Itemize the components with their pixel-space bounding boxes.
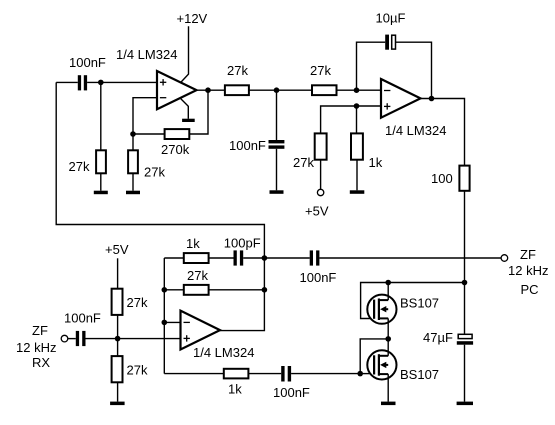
- svg-text:BS107: BS107: [400, 296, 439, 311]
- wire: R8 down to 47uF top plate (crosses 12kHz line without junction): [464, 191, 466, 334]
- node: U2 - input junction (10uF feedback): [354, 87, 360, 93]
- resistor R6 27k (U2 + input to +5V): [315, 133, 327, 159]
- svg-text:+5V: +5V: [305, 204, 329, 219]
- wire: Q2 gate lead: [360, 373, 374, 375]
- wire: junction down to resistor R3: [132, 134, 134, 150]
- wire: C4 to ground: [464, 345, 466, 402]
- resistor R10 27k (U3 feedback): [184, 285, 209, 295]
- svg-text:27k: 27k: [187, 268, 208, 283]
- node: Q1 drain/gate junction: [385, 280, 391, 286]
- wire: R1 to ground: [100, 173, 102, 190]
- wire: C2 to ground: [276, 149, 278, 191]
- wire: junction to 270k resistor: [133, 133, 165, 135]
- svg-text:270k: 270k: [161, 142, 190, 157]
- wire: R9 to C5: [209, 257, 234, 259]
- resistor R12 27k (bias divider lower): [112, 356, 123, 382]
- resistor R2 270k (U1 feedback): [165, 129, 190, 139]
- wire: U3 - input: [164, 321, 180, 323]
- wire: C5 to output node and onward to C7: [243, 257, 310, 259]
- node: U1 output junction: [205, 87, 211, 93]
- node: junction at C1 output: [98, 80, 104, 86]
- node: junction on output rail: [262, 287, 268, 293]
- svg-text:1k: 1k: [369, 155, 383, 170]
- svg-text:27k: 27k: [144, 165, 165, 180]
- terminal: ZF 12 kHz RX input (open circle): [61, 335, 68, 342]
- wire: U1 - input to feedback node: [133, 98, 157, 134]
- resistor R3 27k (U1 - input to ground): [128, 150, 138, 173]
- capacitor C5 100pF (U3 feedback): [234, 250, 244, 265]
- wire: U2 output to 100 resistor: [421, 99, 465, 166]
- wire: 270k to U1 output: [189, 90, 208, 134]
- wire: C8 to Q2 gate junction: [291, 373, 360, 375]
- svg-text:12 kHz: 12 kHz: [508, 263, 548, 278]
- svg-text:100nF: 100nF: [69, 55, 106, 70]
- wire: lower feedback vertical rail (U3 - node): [163, 258, 165, 374]
- wire: R6 to +5V terminal: [320, 160, 322, 190]
- wire: 27k feedback branch: [164, 289, 184, 291]
- node: junction at C2 top: [274, 87, 280, 93]
- ground (below R7): [350, 190, 365, 194]
- transistor Q1 BS107 (upper, diode-connected): [367, 283, 396, 339]
- svg-text:1/4 LM324: 1/4 LM324: [385, 123, 446, 138]
- svg-text:1k: 1k: [186, 236, 200, 251]
- ground (below R3): [126, 191, 140, 195]
- op-amp U1 1/4 LM324 (first stage): [157, 71, 197, 109]
- node: U2 output junction: [429, 96, 435, 102]
- svg-text:27k: 27k: [69, 159, 90, 174]
- wire: +12V supply pin of U1: [181, 26, 189, 82]
- pin: U2 - symbol: [384, 90, 390, 92]
- wire: C7 to ZF PC terminal (crosses 100-resistor rail without junction): [319, 257, 501, 259]
- wire: Q1 gate wrap: [361, 283, 389, 319]
- svg-text:100pF: 100pF: [224, 235, 261, 250]
- resistor R11 27k (bias divider upper): [112, 289, 123, 315]
- resistor R5 27k (into U2 - input): [312, 85, 337, 95]
- wire: U2 + input line: [321, 106, 381, 133]
- svg-text:27k: 27k: [293, 155, 314, 170]
- wire: junction down to C2: [276, 90, 278, 140]
- wire: U1 ground pin: [181, 99, 189, 119]
- ground (below Q2 source): [381, 402, 396, 406]
- op-amp U3 1/4 LM324 (RX amplifier): [181, 311, 221, 350]
- wire: C1 to op-amp U1 + input: [87, 81, 157, 83]
- wire: R12 to ground: [117, 382, 119, 401]
- svg-text:+5V: +5V: [105, 242, 129, 257]
- ground (U1 power pin): [182, 119, 195, 122]
- wire: R13 to C8: [248, 373, 281, 375]
- svg-text:1/4 LM324: 1/4 LM324: [193, 345, 254, 360]
- pin: U3 - symbol: [184, 321, 190, 323]
- wire: 1k/100pF feedback branch: [164, 257, 184, 259]
- node: - input junction: [162, 320, 168, 326]
- node: U1 - input junction: [130, 131, 136, 137]
- wire: R4 to R5: [249, 89, 312, 91]
- wire: junction down to resistor R1: [100, 82, 102, 150]
- wire: RX terminal to C6: [68, 338, 76, 340]
- pin: U1 - symbol: [160, 97, 166, 99]
- wire: R7 to ground: [356, 160, 358, 191]
- svg-text:ZF: ZF: [520, 247, 536, 262]
- resistor R1 27k (U1 + input to ground): [96, 150, 106, 173]
- wire: U3 - node down to gate drive branch: [164, 373, 224, 375]
- svg-text:+12V: +12V: [177, 11, 208, 26]
- resistor R7 1k (U2 + input to ground): [351, 133, 363, 159]
- wire: Q1 drain node to output rail: [388, 282, 464, 284]
- pin: U3 + symbol: [184, 335, 190, 341]
- svg-text:100nF: 100nF: [300, 270, 337, 285]
- svg-text:RX: RX: [32, 355, 50, 370]
- wire: overall feedback loop from lower op-amp output up-left to first-stage input: [56, 82, 264, 330]
- svg-text:BS107: BS107: [400, 367, 439, 382]
- svg-text:1/4 LM324: 1/4 LM324: [116, 47, 177, 62]
- wire: U1 output to R4: [197, 89, 225, 91]
- capacitor C3 10uF (U2 feedback, polarized): [385, 35, 395, 50]
- pin: U1 + symbol: [160, 79, 166, 85]
- capacitor C8 100nF (gate drive coupling): [281, 366, 291, 382]
- capacitor C1 100nF (first stage input): [56, 75, 87, 90]
- pin: U2 + symbol: [384, 103, 390, 109]
- wire: junction to R12: [117, 339, 119, 357]
- capacitor C4 47uF (polarized, to ground): [457, 334, 473, 344]
- svg-text:27k: 27k: [227, 63, 248, 78]
- ground (below R12): [110, 402, 125, 406]
- svg-text:PC: PC: [521, 282, 539, 297]
- node: Q1 source / Q2 drain junction: [385, 336, 391, 342]
- wire: Q2 gate wrap: [360, 339, 388, 374]
- node: junction with BS107 drain wire: [462, 280, 468, 286]
- svg-text:10µF: 10µF: [376, 11, 406, 26]
- svg-text:47µF: 47µF: [423, 330, 453, 345]
- node: junction of feedback with output rail: [262, 255, 268, 261]
- wire: R10 to output rail: [209, 289, 265, 291]
- svg-text:27k: 27k: [310, 63, 331, 78]
- svg-text:100: 100: [431, 171, 453, 186]
- wire: C6 to U3 + input: [86, 338, 181, 340]
- resistor R4 27k (U1 output to U2 - input): [225, 85, 249, 95]
- capacitor C2 100nF (to ground): [269, 140, 285, 149]
- svg-text:100nF: 100nF: [273, 385, 310, 400]
- terminal: +5V (open circle): [317, 189, 323, 195]
- op-amp U2 1/4 LM324 (second stage): [381, 79, 421, 118]
- wire: 10uF right side down to U2 output: [396, 42, 432, 98]
- ground (below C2): [270, 190, 284, 194]
- wire: R5 to U2 - input: [337, 89, 382, 91]
- wire: +5V to R11: [117, 258, 119, 288]
- terminal: ZF 12 kHz PC output (open circle): [501, 255, 508, 262]
- svg-text:ZF: ZF: [32, 323, 48, 338]
- ground (below R1): [94, 191, 108, 195]
- ground (below C4): [457, 402, 473, 406]
- svg-text:1k: 1k: [228, 382, 242, 397]
- resistor R13 1k (gate drive): [224, 369, 249, 379]
- svg-text:27k: 27k: [127, 363, 148, 378]
- svg-text:100nF: 100nF: [64, 310, 101, 325]
- capacitor C7 100nF (output coupling to PC): [310, 250, 320, 265]
- wire: 10uF feedback loop left side: [357, 42, 386, 90]
- node: junction on - rail: [162, 287, 168, 293]
- svg-text:27k: 27k: [127, 295, 148, 310]
- wire: R3 to ground: [132, 173, 134, 190]
- node: bias divider junction: [115, 336, 121, 342]
- resistor R8 100 (output series): [459, 166, 469, 191]
- transistor Q2 BS107 (lower, diode-connected): [367, 339, 396, 402]
- svg-text:12 kHz: 12 kHz: [16, 340, 56, 355]
- wire: U2 + junction down to R7: [356, 106, 358, 133]
- resistor R9 1k (U3 feedback): [184, 253, 209, 263]
- node: Q2 gate junction: [357, 371, 363, 377]
- wire: R11 to junction: [117, 315, 119, 339]
- node: U2 + input junction: [354, 103, 360, 109]
- capacitor C6 100nF (RX input coupling): [76, 331, 86, 346]
- svg-text:100nF: 100nF: [229, 138, 266, 153]
